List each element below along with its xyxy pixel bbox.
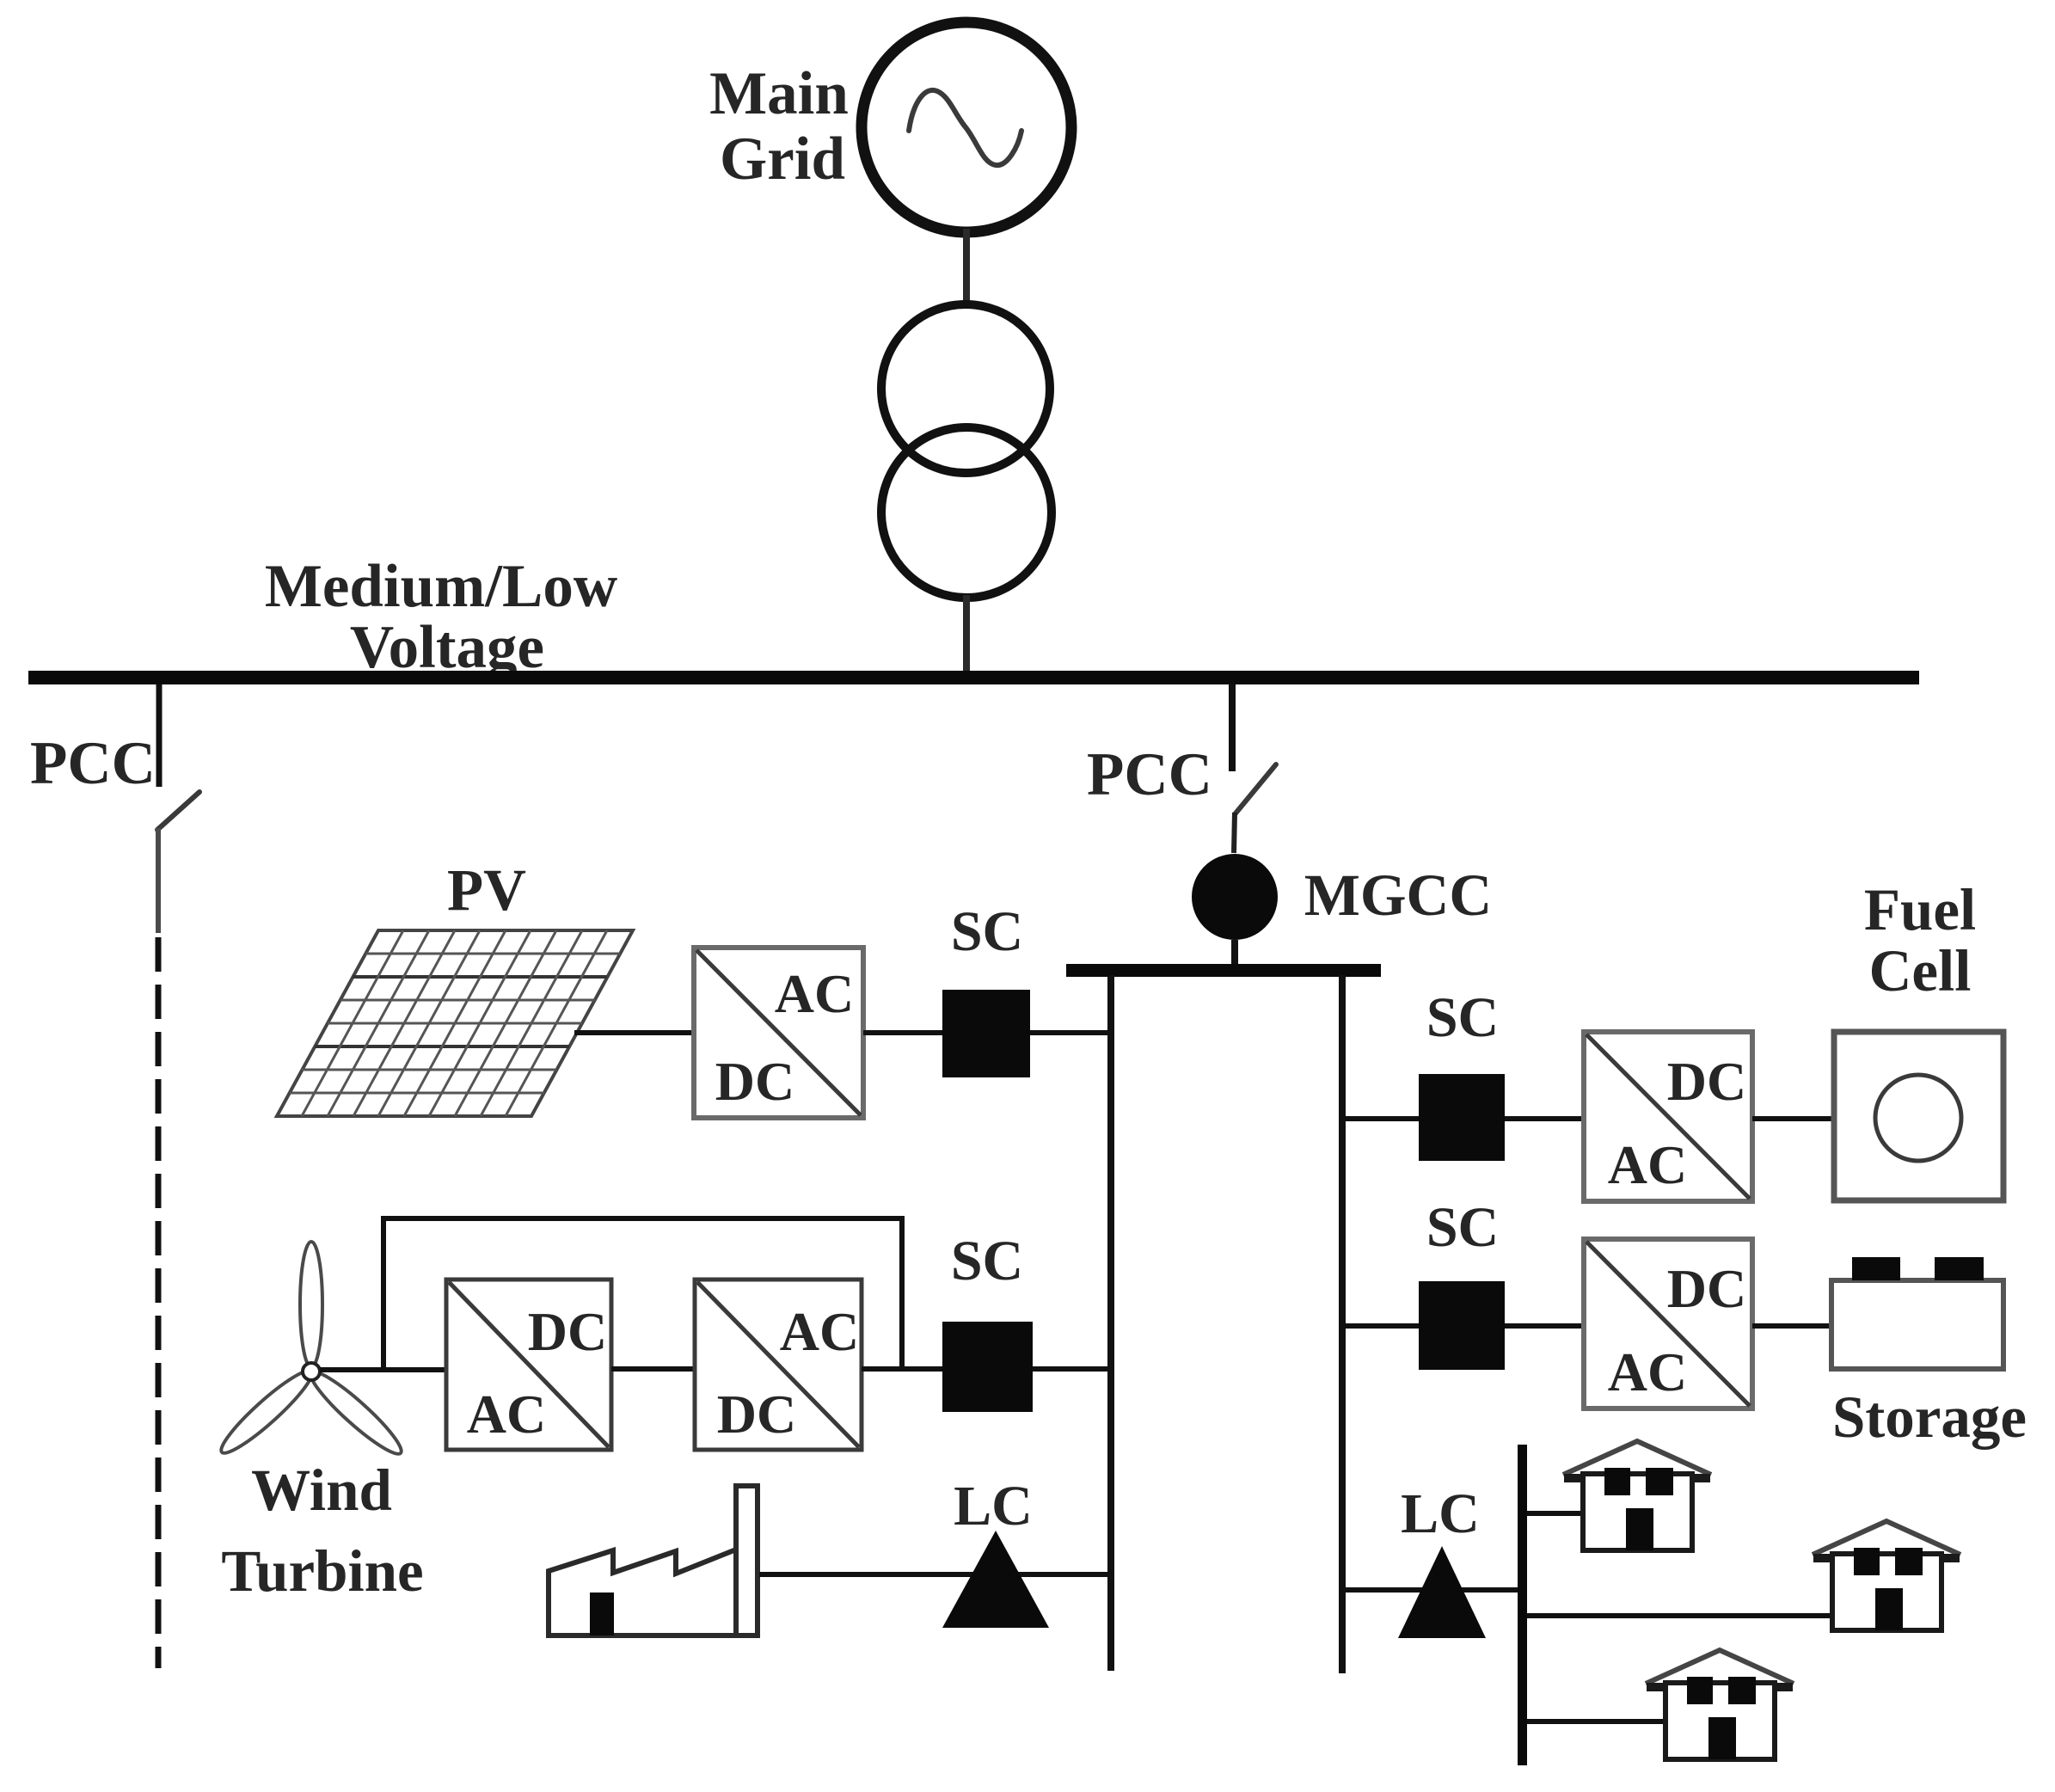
wire converter to SC (wind): [862, 1366, 942, 1372]
svg-text:AC: AC: [467, 1384, 546, 1445]
converter AC/DC (storage): [1584, 1239, 1752, 1408]
switch SC (PV) black square: [942, 990, 1030, 1077]
svg-text:DC: DC: [717, 1384, 796, 1445]
wind turbine WT: [214, 1242, 408, 1462]
svg-text:PCC: PCC: [30, 730, 156, 797]
bus microgrid: [1066, 964, 1381, 977]
bus Medium/Low Voltage: [28, 671, 1919, 684]
svg-text:DC: DC: [1667, 1258, 1746, 1319]
wire PCC left drop: [156, 684, 163, 787]
wire feeder to SC (fuel cell): [1342, 1116, 1419, 1121]
converter AC/DC (wind rectifier): [446, 1280, 611, 1450]
wire SC to left feeder (wind): [1033, 1366, 1113, 1372]
svg-text:SC: SC: [951, 1230, 1023, 1292]
svg-text:PV: PV: [447, 857, 526, 923]
transformer T1: [881, 304, 1052, 598]
converter AC/DC (fuel cell): [1584, 1032, 1752, 1201]
svg-text:SC: SC: [1426, 986, 1499, 1049]
svg-text:AC: AC: [775, 963, 854, 1024]
wire PV to converter: [574, 1030, 694, 1035]
wire feeder to SC (storage): [1342, 1323, 1419, 1329]
switch SC (wind) black square: [942, 1322, 1033, 1412]
wire to house 1: [1527, 1511, 1583, 1516]
converter DC/AC (wind inverter): [695, 1280, 862, 1450]
wire converter to storage: [1752, 1323, 1831, 1329]
svg-text:AC: AC: [1608, 1341, 1687, 1402]
fuel cell FC: [1834, 1032, 2003, 1200]
wire dashed microgrid boundary: [156, 937, 162, 1668]
switch S1 (left PCC breaker): [157, 792, 199, 933]
svg-text:AC: AC: [1608, 1134, 1687, 1195]
svg-text:Main: Main: [709, 60, 849, 127]
wire to house 3: [1527, 1719, 1665, 1724]
factory door: [590, 1593, 614, 1636]
wire between wind converters: [611, 1366, 695, 1372]
wire converter to fuel cell: [1752, 1116, 1834, 1121]
load controller LC triangle (factory): [942, 1531, 1049, 1628]
main grid source G1: [862, 22, 1071, 232]
house load 3: [1646, 1650, 1794, 1759]
wire SC to left feeder: [1030, 1030, 1113, 1035]
svg-text:Medium/Low: Medium/Low: [265, 553, 617, 620]
svg-text:DC: DC: [715, 1051, 794, 1112]
wire turbine to converter: [320, 1367, 446, 1372]
svg-text:PCC: PCC: [1087, 741, 1212, 808]
svg-text:Grid: Grid: [720, 126, 845, 193]
svg-text:SC: SC: [951, 900, 1023, 963]
svg-text:Fuel: Fuel: [1864, 877, 1976, 942]
house load 2: [1813, 1521, 1960, 1630]
svg-text:Wind: Wind: [251, 1458, 392, 1523]
wire factory to feeder: [759, 1572, 1113, 1577]
load controller LC triangle (houses): [1398, 1546, 1486, 1638]
switch SC (storage) black square: [1419, 1281, 1505, 1370]
svg-text:AC: AC: [780, 1301, 859, 1362]
svg-text:MGCC: MGCC: [1304, 862, 1492, 928]
wire transformer to bus: [963, 595, 970, 672]
storage battery: [1831, 1257, 2003, 1369]
wire SC to converter (fuel cell): [1505, 1116, 1584, 1121]
controller MGCC node: [1192, 854, 1278, 940]
svg-text:DC: DC: [1667, 1051, 1746, 1112]
wire wind bypass loop: [383, 1218, 902, 1370]
factory load: [549, 1486, 758, 1636]
switch SC (fuel cell) black square: [1419, 1074, 1505, 1161]
svg-text:LC: LC: [954, 1475, 1033, 1537]
switch S2 (center PCC breaker): [1234, 764, 1276, 853]
converter DC/AC (PV): [694, 948, 863, 1118]
svg-text:DC: DC: [528, 1301, 607, 1362]
svg-text:Turbine: Turbine: [221, 1538, 423, 1604]
svg-text:Cell: Cell: [1869, 938, 1972, 1003]
wire converter to SC: [863, 1030, 942, 1035]
svg-text:SC: SC: [1426, 1196, 1499, 1259]
wire left feeder: [1107, 975, 1114, 1671]
svg-text:LC: LC: [1401, 1482, 1480, 1545]
wire SC to converter (storage): [1505, 1323, 1584, 1329]
wire grid to transformer: [963, 229, 970, 306]
wire right feeder: [1339, 975, 1346, 1673]
wire to house 2: [1527, 1613, 1831, 1618]
svg-text:Storage: Storage: [1832, 1384, 2027, 1450]
wire PCC center drop: [1229, 684, 1236, 771]
wire MGCC to microgrid bus: [1231, 940, 1238, 967]
wire feeder to LC (houses): [1342, 1587, 1518, 1593]
house load 1: [1563, 1441, 1711, 1550]
PV array panel: [277, 930, 633, 1116]
bus house feeder: [1518, 1445, 1527, 1765]
